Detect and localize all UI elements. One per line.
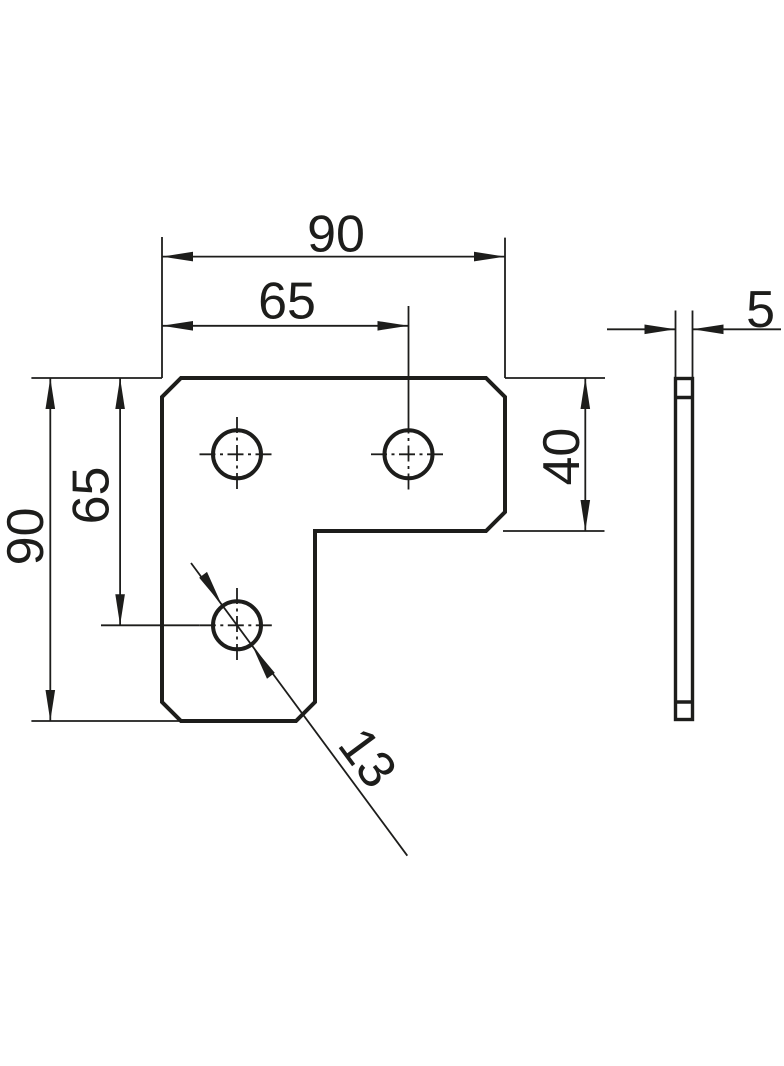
centerline hole top-left horizontal bbox=[200, 453, 274, 455]
dimension line 90 top bbox=[162, 256, 505, 258]
dimension line 40 right bbox=[584, 378, 586, 531]
side view plate body bbox=[676, 379, 693, 720]
centerline hole top-right horizontal bbox=[371, 453, 445, 455]
dimension line 65 left bbox=[119, 378, 121, 625]
centerline hole bottom-left horizontal + extension to left 65 dim bbox=[101, 624, 200, 626]
arrow 65 top left bbox=[162, 321, 193, 331]
arrow 13 lower (points at hole edge) bbox=[253, 646, 275, 679]
arrow 65 top right bbox=[378, 321, 409, 331]
svg-text:5: 5 bbox=[746, 281, 775, 339]
arrow 90 left bottom bbox=[46, 690, 56, 721]
arrow 40 top bbox=[581, 378, 591, 409]
extension line 40 top horizontal bbox=[505, 377, 605, 379]
arrow 90 top right bbox=[474, 252, 505, 262]
svg-text:40: 40 bbox=[533, 428, 591, 486]
extension line 5 right vertical bbox=[692, 311, 694, 379]
arrow 90 left top bbox=[46, 378, 56, 409]
leader line 13 diagonal bbox=[191, 563, 407, 856]
arrow 65 left top bbox=[115, 378, 125, 409]
centerline hole top-left vertical bbox=[236, 417, 238, 491]
side view chamfer edge top bbox=[676, 396, 693, 399]
arrow 13 upper (points at hole edge) bbox=[199, 572, 221, 605]
hole top-right bbox=[385, 430, 433, 478]
extension line left top horizontal bbox=[31, 377, 162, 379]
arrow 5 left (points right) bbox=[645, 325, 676, 335]
dimension line 5 right segment bbox=[693, 328, 782, 330]
extension line 40 bottom horizontal bbox=[503, 530, 605, 532]
arrow 40 bottom bbox=[581, 500, 591, 531]
centerline hole top-right vertical + extension to 65 dim bbox=[408, 306, 410, 418]
hole bottom-left bbox=[213, 601, 261, 649]
arrow 90 top left bbox=[162, 252, 193, 262]
dimension line 90 left bbox=[49, 378, 51, 721]
svg-text:13: 13 bbox=[327, 718, 408, 799]
plate outline (front view, L-shaped bracket) bbox=[162, 378, 505, 721]
dimension line 65 top bbox=[162, 325, 409, 327]
side view chamfer edge bottom bbox=[676, 700, 693, 703]
svg-text:90: 90 bbox=[307, 206, 365, 264]
svg-text:65: 65 bbox=[258, 273, 316, 331]
extension line top-right vertical bbox=[504, 238, 506, 378]
extension line left bottom horizontal bbox=[31, 720, 181, 722]
centerline hole bottom-left vertical bbox=[236, 588, 238, 662]
arrow 65 left bottom bbox=[115, 594, 125, 625]
extension line 5 left vertical bbox=[675, 311, 677, 379]
extension line top-left vertical bbox=[161, 237, 163, 378]
hole top-left bbox=[213, 430, 261, 478]
svg-text:65: 65 bbox=[63, 467, 121, 525]
dimension line 5 left segment bbox=[607, 328, 676, 330]
svg-text:90: 90 bbox=[0, 507, 55, 565]
arrow 5 right (points left) bbox=[693, 325, 724, 335]
